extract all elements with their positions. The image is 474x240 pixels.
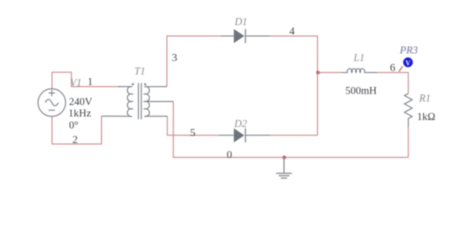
polarity dot secondary	[144, 83, 146, 85]
svg-text:L1: L1	[353, 53, 365, 64]
svg-text:2: 2	[72, 134, 78, 146]
secondary bottom pin stub	[145, 115, 168, 117]
wire: V1 bottom to T1 primary bottom (net 2)	[52, 116, 102, 144]
svg-text:1: 1	[87, 76, 93, 88]
svg-text:1kHz: 1kHz	[68, 109, 91, 120]
primary winding	[127, 86, 132, 116]
secondary winding	[145, 86, 150, 116]
svg-text:6: 6	[390, 62, 396, 74]
wire: T1 center tap to ground rail (net 0)	[173, 102, 408, 158]
svg-text:1kΩ: 1kΩ	[417, 112, 436, 123]
svg-text:D2: D2	[233, 119, 248, 130]
node: ground rail junction	[282, 156, 286, 160]
svg-text:PR3: PR3	[399, 45, 418, 56]
svg-text:R1: R1	[418, 94, 431, 105]
node: junction of D1/D2 outputs and L1	[316, 71, 320, 75]
primary bottom pin stub	[102, 115, 133, 117]
probe PR3	[399, 57, 413, 71]
svg-text:T1: T1	[134, 67, 145, 78]
svg-text:4: 4	[289, 25, 295, 37]
wire: junction to L1 left	[318, 72, 343, 74]
core lines	[138, 83, 141, 119]
svg-text:V1: V1	[70, 78, 82, 89]
wire: D2 cathode to junction column	[270, 134, 317, 136]
secondary center tap stub	[145, 101, 174, 103]
diode D1	[220, 29, 270, 43]
primary top pin stub	[118, 86, 132, 88]
inductor L1	[342, 69, 377, 73]
diode D2	[219, 128, 270, 142]
svg-text:3: 3	[172, 52, 178, 64]
svg-text:240V: 240V	[69, 97, 93, 108]
wire: T1 secondary bottom to D2 anode (net 5)	[167, 116, 219, 135]
secondary top pin stub	[145, 86, 167, 88]
polarity dot primary	[132, 83, 134, 85]
svg-text:D1: D1	[234, 17, 248, 28]
wire: R1 bottom to ground rail	[407, 127, 409, 157]
ground	[276, 157, 292, 178]
wire: D1 cathode to junction (net 4)	[270, 36, 317, 135]
svg-text:500mH: 500mH	[345, 86, 377, 97]
svg-text:V: V	[406, 60, 411, 67]
resistor R1	[404, 93, 412, 127]
wire: L1 right to R1 top	[377, 73, 408, 94]
wire: T1 secondary top to D1 anode (net 3)	[167, 36, 220, 87]
svg-text:0°: 0°	[69, 121, 78, 132]
AC source V1	[38, 89, 66, 117]
svg-text:5: 5	[190, 127, 196, 139]
transformer T1	[102, 83, 174, 119]
wire: V1 top to T1 primary top (net 1)	[52, 72, 120, 89]
svg-text:0: 0	[227, 149, 233, 161]
